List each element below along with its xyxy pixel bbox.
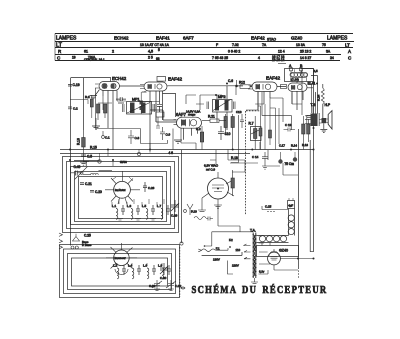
- svg-text:R.18: R.18: [302, 143, 308, 147]
- svg-text:R.7: R.7: [249, 122, 254, 126]
- resistor R3 grid leak: [85, 95, 93, 118]
- svg-text:C.32: C.32: [175, 284, 182, 288]
- svg-text:T.S: T.S: [311, 103, 317, 107]
- table row LT: [56, 43, 350, 49]
- IF transformer MF1: [123, 102, 155, 115]
- wire: detector area links: [231, 71, 312, 163]
- svg-text:C.20: C.20: [95, 190, 102, 194]
- detector load verticals: [258, 98, 279, 150]
- svg-text:ECH42: ECH42: [112, 76, 127, 81]
- rectifier valve GZ40: [257, 246, 299, 271]
- capacitor C23: [80, 182, 92, 186]
- svg-text:C.2: C.2: [73, 107, 78, 111]
- svg-text:3A: 3A: [326, 50, 331, 54]
- svg-text:P. Buse: P. Buse: [82, 243, 92, 247]
- svg-text:EAF42: EAF42: [168, 77, 182, 82]
- wire: top plate bus: [119, 86, 313, 88]
- wire: coil bank feeders lower: [117, 263, 162, 266]
- oscillator coil assembly: [97, 96, 113, 120]
- valve ECH42 (triode-hexode converter): [95, 82, 120, 151]
- aerial trimmer C46: [71, 161, 112, 179]
- svg-text:C.8: C.8: [135, 136, 140, 140]
- ground: below 6M5: [198, 198, 222, 212]
- svg-text:MF1: MF1: [132, 98, 140, 102]
- svg-text:6AF7: 6AF7: [183, 36, 194, 41]
- wire: inner left vertical: [83, 78, 85, 130]
- rotary switch S2: [106, 243, 137, 274]
- svg-text:C: C: [57, 55, 61, 60]
- coupling resistor between valves: [281, 85, 287, 89]
- tuning gang capacitor C29: [171, 200, 179, 218]
- capacitor C32 with ground: [166, 280, 182, 291]
- ground: below 6AF7: [174, 140, 182, 143]
- mains transformer TA: [250, 229, 268, 284]
- terminal C1: [102, 131, 110, 140]
- caption mark: [181, 287, 185, 289]
- svg-text:75: 75: [322, 43, 326, 47]
- dial lamp column: [288, 209, 294, 236]
- svg-text:75 Cm: 75 Cm: [285, 162, 295, 166]
- coupling squiggle annotation: [194, 217, 213, 221]
- capacitor C26 with ground: [143, 182, 155, 192]
- wire: speaker feed verticals: [322, 104, 324, 118]
- svg-text:R.21: R.21: [208, 115, 215, 119]
- wire: AF section long vertical: [181, 150, 183, 243]
- svg-text:F.2: F.2: [229, 238, 233, 242]
- loudspeaker HP: [319, 103, 332, 129]
- wire: osc section feeders: [70, 100, 113, 167]
- test point P10: [184, 204, 198, 215]
- svg-text:C.17: C.17: [279, 144, 285, 148]
- svg-text:4μF: 4μF: [288, 204, 293, 208]
- svg-text:6,3v: 6,3v: [259, 270, 265, 274]
- svg-text:4,5: 4,5: [148, 50, 153, 54]
- component box above EAF42: [157, 77, 166, 82]
- resistor R24 dropper: [317, 88, 325, 104]
- capacitor C10: [218, 126, 231, 140]
- svg-text:C.25: C.25: [84, 234, 91, 238]
- volume potentiometer box: [249, 116, 262, 150]
- svg-text:C.6: C.6: [228, 79, 233, 83]
- svg-text:C.21: C.21: [85, 182, 92, 186]
- wire: verticals below EAF42: [142, 91, 163, 150]
- wire: mains routing: [204, 232, 253, 246]
- nested wiring loops lower switch block: [60, 245, 180, 298]
- svg-text:C.1: C.1: [105, 136, 110, 140]
- table row R: [58, 48, 351, 54]
- svg-text:R.2: R.2: [196, 127, 201, 131]
- choke L15 output coil: [285, 69, 314, 82]
- label 6M5 heater note: [204, 164, 219, 172]
- valve EL41 output: [288, 81, 307, 110]
- svg-text:avec: avec: [120, 160, 127, 164]
- svg-text:24: 24: [330, 56, 334, 60]
- terminal circle on bus: [137, 152, 140, 155]
- IF transformer MF2: [207, 86, 235, 130]
- wire: top left horizontal to ECH42: [71, 78, 111, 82]
- resistor R20: [196, 126, 204, 150]
- label row above bus: [279, 143, 308, 148]
- svg-text:LAMPES: LAMPES: [327, 36, 348, 42]
- ground: below ECH42: [90, 90, 100, 99]
- electrolytic capacitor block: [288, 198, 295, 209]
- capacitor C15 to ground: [262, 205, 288, 212]
- svg-text:LT: LT: [345, 43, 350, 48]
- svg-text:R: R: [58, 49, 62, 54]
- terminal circle below bus: [98, 160, 101, 163]
- svg-text:R.24: R.24: [317, 94, 321, 101]
- svg-text:2: 2: [112, 50, 114, 54]
- svg-text:14 8 27: 14 8 27: [300, 56, 311, 60]
- svg-text:C13: C13: [236, 110, 242, 114]
- svg-text:EAF41: EAF41: [156, 36, 170, 41]
- wire: bottom right link: [298, 268, 300, 280]
- svg-text:Inv.Rotat: Inv.Rotat: [115, 188, 126, 192]
- svg-text:61: 61: [84, 50, 88, 54]
- svg-text:5: 5: [158, 48, 160, 52]
- svg-text:2 5: 2 5: [148, 56, 153, 60]
- wire: right HT rail: [317, 76, 319, 114]
- svg-text:rouge: rouge: [188, 113, 196, 117]
- shield dashed lower left: [179, 247, 181, 297]
- padder capacitor C30: [160, 263, 168, 280]
- svg-text:C10: C10: [225, 132, 231, 136]
- nested wiring loops upper switch block: [63, 157, 179, 233]
- wire: rectifier output: [259, 252, 314, 270]
- svg-text:GZ40: GZ40: [291, 36, 303, 41]
- capacitor C13b: [284, 123, 296, 132]
- capacitor C2 on rail: [68, 107, 78, 111]
- dial lamp row: [257, 236, 289, 243]
- svg-text:63: 63: [156, 57, 160, 61]
- wire: speaker feed pair: [316, 84, 323, 118]
- svg-text:C.30: C.30: [160, 276, 167, 280]
- table header row labels: [56, 36, 348, 42]
- capacitor C6: [228, 79, 238, 87]
- svg-text:P.10: P.10: [191, 210, 197, 214]
- wire: long AVC bus: [60, 149, 314, 151]
- svg-text:110: 110: [236, 248, 241, 252]
- wire: 130V tap elbow: [228, 261, 234, 275]
- svg-text:130V: 130V: [213, 258, 220, 262]
- rectifier box terminals: [262, 243, 270, 246]
- ground: coil bank grounds: [117, 219, 156, 221]
- svg-text:C.15: C.15: [265, 205, 272, 209]
- valve EAF42 detector: [248, 82, 277, 110]
- shield partition dashed: [246, 111, 260, 215]
- svg-text:12 4: 12 4: [278, 50, 285, 54]
- svg-text:A: A: [348, 49, 351, 54]
- rotary wave-change switch S1: [105, 171, 140, 204]
- svg-text:F: F: [216, 43, 218, 47]
- svg-text:A: A: [289, 64, 292, 68]
- svg-text:R.18: R.18: [231, 156, 238, 160]
- resistor column mid right: [285, 116, 311, 166]
- valve 6AF7 indicator: [174, 117, 202, 140]
- mains voltage selector: [213, 244, 251, 268]
- labels L1 L3 L5 L7: [112, 204, 162, 208]
- svg-text:ECH42: ECH42: [114, 36, 129, 41]
- capacitor C9: [160, 127, 171, 140]
- valve EAF42 first IF: [140, 82, 167, 122]
- svg-text:CENTRAL 2A 1: CENTRAL 2A 1: [84, 58, 105, 62]
- svg-text:C.9: C.9: [166, 133, 171, 137]
- svg-text:MF2: MF2: [218, 95, 226, 99]
- svg-text:STAO: STAO: [267, 38, 276, 42]
- svg-text:C.19: C.19: [73, 83, 80, 87]
- resistor R16: [77, 130, 86, 162]
- svg-text:7 65 43 25: 7 65 43 25: [212, 56, 228, 60]
- svg-text:C.29: C.29: [171, 214, 178, 218]
- wire: mid column drops: [210, 150, 245, 172]
- ground: left of MF1: [92, 118, 100, 129]
- wire: bus labels: [90, 146, 173, 165]
- svg-text:C.46: C.46: [74, 165, 81, 169]
- svg-text:C 13: C 13: [285, 123, 292, 127]
- output valve 6M5 circle symbol: [202, 172, 234, 205]
- table: valve data table rules: [55, 34, 354, 61]
- grid capacitor block left of 6AF7: [156, 112, 164, 128]
- node A and node B connector squares under table: [278, 64, 303, 75]
- svg-text:L.5: L.5: [142, 204, 147, 208]
- capacitor C31 with ground: [149, 280, 162, 291]
- wire: left short bus: [74, 160, 100, 162]
- svg-text:F.1: F.1: [216, 247, 220, 251]
- coil bank L2 L4 L6 L8: [117, 265, 171, 279]
- svg-text:C.26: C.26: [148, 186, 155, 190]
- svg-text:H.P: H.P: [325, 103, 331, 107]
- svg-text:EAF42: EAF42: [251, 36, 265, 41]
- grid capacitor of 6AF7: [140, 92, 176, 117]
- svg-text:19: 19: [72, 56, 76, 60]
- svg-text:GZ40: GZ40: [279, 249, 288, 253]
- svg-text:7.02: 7.02: [232, 43, 239, 47]
- svg-text:LAMPES: LAMPES: [56, 36, 77, 42]
- svg-text:B: B: [300, 64, 303, 68]
- svg-text:(C.36): (C.36): [291, 78, 299, 82]
- svg-text:C: C: [348, 56, 352, 61]
- svg-text:R12: R12: [239, 81, 245, 85]
- svg-text:C.31: C.31: [149, 284, 156, 288]
- wire: second bus: [60, 153, 250, 155]
- capacitor C5: [80, 155, 92, 166]
- capacitor C19 on left rail: [68, 83, 80, 87]
- svg-text:L.7: L.7: [157, 204, 162, 208]
- svg-text:R.3: R.3: [85, 95, 90, 99]
- capacitor C22: [90, 190, 102, 194]
- wire: lower area links: [218, 205, 240, 232]
- svg-text:L.3: L.3: [127, 204, 132, 208]
- svg-text:R.16: R.16: [77, 138, 81, 145]
- svg-text:ref C.9: ref C.9: [206, 167, 215, 171]
- svg-text:13 3A: 13 3A: [296, 43, 306, 47]
- wire: 6AF7 feeds: [150, 110, 177, 122]
- svg-text:19 16 14: 19 16 14: [272, 58, 285, 62]
- capacitor C4 pair near ECH42: [116, 97, 126, 103]
- wire: AF coupling row: [186, 95, 222, 110]
- wire: right rail 2: [301, 69, 318, 252]
- labels L2 L4 L6 L8: [113, 264, 163, 268]
- svg-text:R.14: R.14: [291, 144, 297, 148]
- resistor R12: [236, 81, 252, 96]
- resistor network right of 6AF7: [202, 114, 234, 150]
- svg-text:25 13 2: 25 13 2: [300, 50, 311, 54]
- mains lead and plug: [198, 248, 242, 255]
- wire: heater bus segments: [96, 88, 197, 153]
- capacitor C13: [236, 110, 244, 128]
- fuse F1: [216, 246, 231, 251]
- svg-text:4 6: 4 6: [169, 151, 174, 155]
- svg-text:L.1: L.1: [112, 204, 117, 208]
- ground: speaker frame: [320, 123, 327, 132]
- svg-text:4: 4: [258, 56, 260, 60]
- svg-text:C 14: C 14: [252, 155, 259, 159]
- table row C: [57, 55, 352, 62]
- capacitor C8: [128, 130, 140, 144]
- wire: right rail 4: [310, 140, 313, 252]
- svg-text:7A: 7A: [262, 43, 267, 47]
- wire: ECH42 to MF1 drop: [117, 101, 160, 122]
- svg-text:EAF42: EAF42: [266, 76, 280, 81]
- svg-text:220V: 220V: [232, 264, 239, 268]
- speaker output transformer TS: [305, 103, 319, 126]
- wire: left vertical rail: [70, 78, 72, 246]
- svg-text:4,5: 4,5: [314, 69, 319, 73]
- wire: right rail 3: [298, 129, 300, 268]
- hv smoothing bridge wires: [228, 142, 298, 175]
- coil bank L1 L3 L5 L7 with trimmers: [116, 205, 170, 219]
- wire: EAF42 detector pin drops: [246, 92, 302, 123]
- svg-text:SCHÉMA DU RÉCEPTEUR: SCHÉMA DU RÉCEPTEUR: [192, 284, 328, 296]
- wire: coil bank feeders upper: [112, 199, 164, 207]
- svg-text:13 1A AT CT 4A 1A: 13 1A AT CT 4A 1A: [140, 43, 170, 47]
- terminal circle on AF vertical: [180, 242, 183, 245]
- label lamp note: [186, 110, 200, 117]
- svg-text:LT: LT: [56, 43, 63, 49]
- terminals: earth and pick-up: [59, 233, 92, 249]
- svg-text:R.15: R.15: [90, 146, 97, 150]
- svg-text:0 6 40 2: 0 6 40 2: [228, 50, 240, 54]
- cathode resistor network of 6M5: [231, 170, 234, 196]
